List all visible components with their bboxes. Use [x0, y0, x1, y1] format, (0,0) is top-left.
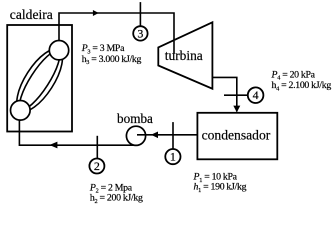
condenser box — [197, 113, 277, 160]
boiler drum circle bottom — [10, 101, 30, 121]
arrow into condenser — [233, 106, 240, 113]
svg-text:4: 4 — [253, 88, 259, 102]
wire turbine to condenser — [212, 77, 236, 111]
svg-text:condensador: condensador — [202, 128, 271, 143]
wire boiler to turbine (top steam line) — [59, 13, 174, 54]
boiler drum circle top — [49, 41, 68, 60]
svg-text:2: 2 — [94, 159, 100, 173]
svg-text:h3 = 3.000 kJ/kg: h3 = 3.000 kJ/kg — [82, 54, 142, 66]
node 4 tick — [224, 94, 248, 96]
turbine inlet stub — [173, 41, 175, 54]
node 1 circle — [165, 149, 180, 164]
node 2 circle — [89, 159, 104, 174]
svg-text:3: 3 — [137, 26, 143, 40]
node 2 tick — [96, 136, 98, 159]
svg-text:h4 = 2.100 kJ/kg: h4 = 2.100 kJ/kg — [272, 80, 332, 92]
arrow into pump — [151, 132, 158, 139]
svg-text:1: 1 — [170, 150, 176, 164]
node 4 circle — [248, 87, 264, 103]
wire pump to boiler (bottom return line) — [19, 110, 136, 145]
turbine body — [158, 22, 212, 88]
svg-text:h1 = 190 kJ/kg: h1 = 190 kJ/kg — [194, 182, 247, 194]
svg-text:h2 = 200 kJ/kg: h2 = 200 kJ/kg — [90, 192, 143, 204]
boiler coil outer tube — [8, 42, 71, 118]
node 3 tick — [139, 2, 141, 26]
svg-text:caldeira: caldeira — [10, 7, 53, 22]
boiler coil inner tube — [13, 47, 65, 114]
arrow on bottom return wire — [49, 142, 57, 149]
arrow on top steam wire — [93, 10, 99, 16]
wire condenser to pump — [137, 134, 197, 136]
node 3 circle — [133, 26, 147, 40]
pump circle — [126, 126, 145, 145]
boiler box — [7, 25, 72, 132]
svg-text:bomba: bomba — [117, 111, 153, 126]
node 1 tick — [172, 122, 174, 149]
svg-text:turbina: turbina — [165, 48, 203, 63]
